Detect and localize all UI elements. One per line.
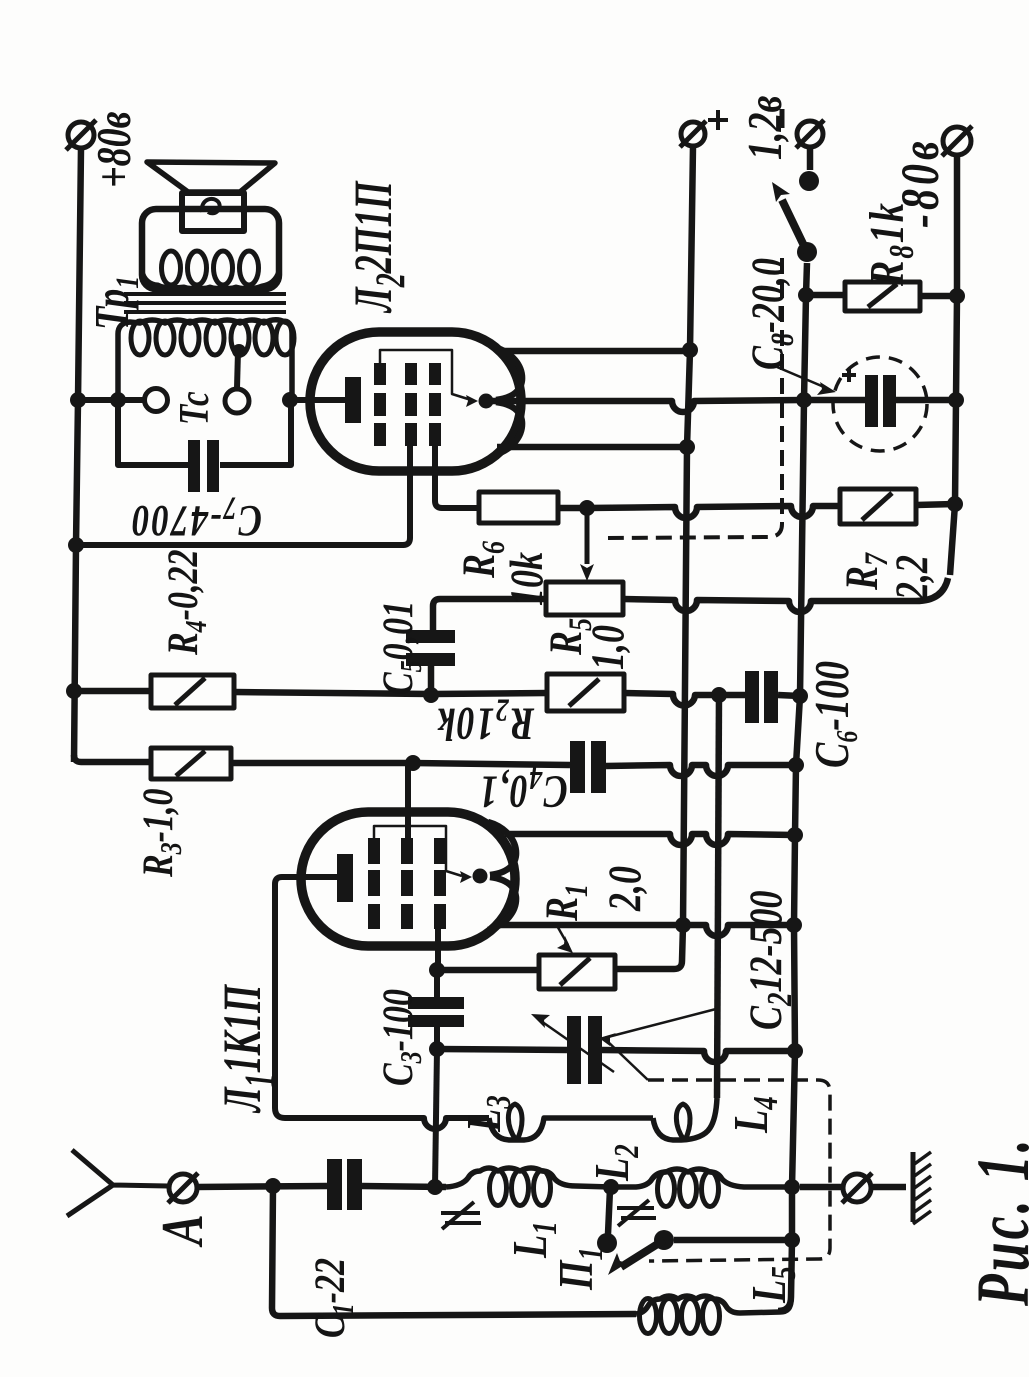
wire R1 left: [437, 967, 539, 974]
node dot: [787, 1043, 803, 1059]
switch blade: [782, 200, 807, 252]
terminal -80v: [942, 126, 972, 156]
resistor R1: [539, 955, 615, 989]
R3 row: left bus corner to R3: [74, 755, 151, 762]
anode lead and left down wire: [275, 877, 489, 1129]
filament apex dot: [479, 394, 494, 409]
capacitor C4 plates: [570, 741, 585, 793]
svg-text:L2: L2: [586, 1144, 646, 1182]
node dot: [798, 287, 814, 303]
switch line down / right bus: [778, 263, 807, 1311]
svg-text:А: А: [151, 1214, 216, 1247]
wire to C1: [197, 1186, 327, 1187]
anode bar: [345, 377, 361, 423]
svg-text:С40,1: С40,1: [478, 760, 568, 818]
terminal +1.2v: [680, 121, 706, 147]
svg-text:П1: П1: [550, 1247, 610, 1291]
node dot: [949, 288, 965, 304]
R5 wiper arrow: [585, 514, 590, 564]
wire down to tuning row: [435, 1049, 437, 1187]
wire C5 bottom: [428, 666, 435, 695]
svg-text:С1-22: С1-22: [306, 1258, 360, 1338]
svg-text:2,0: 2,0: [599, 866, 650, 912]
svg-text:R1: R1: [536, 884, 595, 922]
wire R6 right: [558, 505, 587, 512]
resistor R4: [151, 675, 234, 708]
wire C1 right: [362, 1186, 446, 1187]
svg-text:R4-0,22: R4-0,22: [159, 550, 213, 656]
grid g3 dashes: [368, 838, 380, 929]
svg-text:Тс: Тс: [171, 391, 218, 425]
C8 label pointer: [777, 367, 824, 387]
node dot: [786, 917, 802, 933]
wire P1 to bus: [674, 1237, 792, 1244]
BOTTOM SECTION: [67, 695, 931, 1334]
node dot: [947, 496, 963, 512]
node dot: [711, 687, 727, 703]
resistor R2: [547, 674, 624, 711]
switch P1 moving contact: [654, 1230, 674, 1250]
node dot: [792, 688, 808, 704]
capacitor C6 plates: [745, 671, 759, 723]
svg-text:Л22П1П: Л22П1П: [343, 180, 414, 313]
svg-text:С8-20,0: С8-20,0: [742, 258, 801, 370]
TRANSFORMER Тр1 + speaker: [78, 162, 298, 492]
wire R5 right to -80v bus hook: [623, 578, 948, 612]
svg-text:2,2: 2,2: [886, 555, 937, 601]
resistor R7: [840, 489, 916, 524]
jack circle 1: [145, 389, 168, 412]
speaker driver: [182, 193, 244, 231]
node dot: [787, 827, 803, 843]
grid g2 dashes: [405, 363, 417, 446]
wire R6 row to R7 with hops: [587, 506, 840, 518]
primary box: [142, 209, 279, 289]
C2 label pointer and gang line: [604, 1009, 716, 1080]
coil L5: [636, 1296, 791, 1314]
svg-text:L3: L3: [458, 1095, 518, 1133]
node dot: [579, 500, 595, 516]
wire filament mid row with hop: [489, 400, 804, 412]
core mark L1: [441, 1202, 481, 1229]
g2 wire down: [403, 430, 410, 545]
svg-text:-80в: -80в: [891, 137, 950, 228]
wire C6 left lead: [719, 692, 745, 699]
envelope: [301, 812, 515, 946]
antenna: [67, 1150, 168, 1216]
capacitor C3: [434, 970, 440, 997]
core mark L2: [617, 1200, 656, 1226]
svg-text:+80в: +80в: [88, 111, 141, 188]
svg-text:10k: 10k: [501, 552, 552, 606]
svg-text:С50,01: С50,01: [374, 601, 428, 695]
gang dash line switch to R5: [608, 258, 782, 538]
node dot: [265, 1178, 281, 1194]
-80v bus: [950, 155, 957, 575]
wire node to jack1: [118, 397, 143, 403]
node dot: [70, 392, 86, 408]
coil L3: [489, 1118, 653, 1140]
R4 row: wire left bus to R4: [74, 688, 151, 695]
filament arcs: [494, 347, 522, 400]
resistor R3: [151, 748, 231, 779]
capacitor C8 electrolytic: [804, 397, 865, 404]
plus sign: [708, 110, 728, 130]
node dot: [784, 1179, 800, 1195]
node dot: [423, 687, 439, 703]
terminal ground: [842, 1173, 872, 1203]
g1 col wire down to C3: [435, 920, 441, 970]
wire filament bottom row: [497, 444, 687, 451]
potentiometer R5: [546, 582, 623, 615]
secondary winding spine: [118, 320, 292, 400]
WIRES-LEFT: [66, 120, 96, 762]
grid g2 dashes: [401, 838, 413, 929]
tap wire to jack: [237, 351, 238, 388]
minus sign: [780, 109, 785, 128]
node dot: [429, 1041, 445, 1057]
gang dashed line C2 to P1: [648, 1080, 830, 1261]
wire C1 node down to L5 rail: [272, 1186, 636, 1316]
grid g1 dashes: [434, 838, 446, 929]
switch P1 blade: [621, 1240, 664, 1267]
anode lead: [290, 397, 345, 403]
node dot: [948, 392, 964, 408]
svg-text:С7-4700: С7-4700: [130, 490, 262, 547]
envelope: [310, 332, 521, 471]
wire C6 right lead: [778, 695, 800, 696]
svg-text:Рис. 1.: Рис. 1.: [962, 1136, 1029, 1307]
node dot: [788, 757, 804, 773]
wire +1.2v feed vertical: [615, 146, 693, 969]
wire left vertical bus: [74, 148, 81, 762]
node dot: [282, 392, 298, 408]
switch P1 pole: [608, 1189, 610, 1234]
terminal A: [168, 1173, 198, 1203]
wire to ground terminal: [800, 1184, 843, 1191]
resistor R8: [845, 282, 920, 311]
wire R8 leads: [806, 292, 845, 299]
wire left bus to box: [78, 397, 118, 403]
svg-text:1,0: 1,0: [582, 625, 633, 670]
svg-text:С212-500: С212-500: [740, 891, 799, 1030]
R1 pointer: [556, 924, 568, 945]
wire R7 right: [916, 504, 955, 505]
node dot: [66, 683, 82, 699]
capacitor C2 plates: [567, 1016, 581, 1084]
node dot: [110, 392, 126, 408]
g3 internal tie line: [374, 826, 462, 876]
capacitor C5 plates: [406, 630, 455, 643]
node dot: [682, 342, 698, 358]
filament apex dot: [473, 869, 488, 884]
wire R4 to C5node to R2: [234, 692, 547, 694]
wire L4 vertical up to C6 node: [717, 695, 719, 1098]
g1 wire up to R3 node: [405, 763, 411, 845]
svg-text:С3-100: С3-100: [374, 989, 428, 1086]
jack circle 2: [225, 389, 249, 413]
C2 variable arrow: [541, 1021, 614, 1072]
coil L4: [653, 1098, 717, 1140]
svg-text:С6-100: С6-100: [806, 661, 864, 768]
capacitor C2 left lead: [437, 1049, 567, 1050]
filament arcs: [488, 822, 516, 875]
node dot: [796, 392, 812, 408]
svg-text:R210k: R210k: [436, 692, 535, 750]
RIGHT SIDE: battery switch, R8, C8: [608, 120, 972, 1311]
wire L1 filament top row with hops: [505, 834, 795, 845]
capacitor C1 plates: [327, 1159, 342, 1210]
node dot: [679, 439, 695, 455]
earth ground: [911, 1152, 916, 1222]
capacitor C7 leads frame: [118, 400, 188, 465]
node dot: [405, 755, 421, 771]
switch moving contact: [797, 242, 817, 262]
primary coil (4 loops): [142, 271, 279, 289]
grid g1 dashes: [429, 363, 441, 446]
MIDDLE ROWS: [74, 146, 965, 989]
switch pivot contact: [799, 171, 819, 191]
svg-text:L1: L1: [504, 1221, 564, 1259]
resistor R6: [479, 492, 558, 523]
secondary loops: [131, 321, 149, 355]
core lines: [124, 292, 286, 296]
grid g3 dashes: [374, 363, 386, 446]
wire row g2 to left bus: [76, 542, 404, 548]
wire R5 left to C5: [433, 599, 546, 630]
wire R2 right to C6 with dip: [624, 693, 719, 706]
tap dot: [232, 344, 246, 358]
node dot L1-L2: [603, 1179, 619, 1195]
wire C4 right with hops: [606, 765, 796, 776]
wire R3 to C4: [231, 763, 570, 765]
svg-text:R3-1,0: R3-1,0: [134, 789, 188, 878]
terminal -1.2v: [796, 120, 824, 148]
speaker horn: [147, 162, 275, 192]
node dot: [68, 537, 84, 553]
node dot: [427, 1179, 443, 1195]
terminal +80v: [66, 120, 96, 150]
g3 internal tie line: [380, 350, 468, 399]
svg-text:Тр1: Тр1: [86, 276, 146, 330]
coil L2: [616, 1169, 792, 1187]
svg-text:L5: L5: [743, 1266, 803, 1304]
coil L1: [446, 1168, 611, 1187]
C2 right lead with hop: [602, 1050, 795, 1062]
node dot: [784, 1232, 800, 1248]
svg-text:L4: L4: [725, 1096, 785, 1134]
node dot: [675, 917, 691, 933]
TUBE Л2 2П1П: [76, 332, 522, 545]
node dot: [429, 962, 445, 978]
wire L1 filament bottom row with hop: [500, 925, 794, 936]
anode bar: [337, 854, 353, 902]
TUBE Л1 1К1П: [275, 763, 516, 1187]
g1 wire down to R6: [435, 435, 479, 508]
switch stem: [807, 147, 814, 170]
voice coil curl: [202, 199, 220, 213]
wire filament top row: [497, 348, 690, 355]
capacitor C7 plates: [188, 440, 200, 492]
